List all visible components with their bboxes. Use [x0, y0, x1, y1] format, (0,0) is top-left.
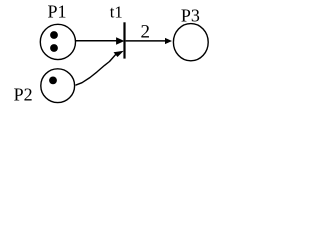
token dot in P1 (lower)	[50, 44, 58, 52]
token dot in P1 (upper)	[50, 31, 58, 39]
svg-text:P2: P2	[14, 84, 33, 104]
svg-text:P3: P3	[181, 6, 200, 26]
wire P1 to t1	[76, 40, 117, 42]
wire t1 to P3	[126, 40, 166, 42]
arrowhead P2 to t1	[114, 51, 124, 57]
place P1 circle	[40, 24, 75, 59]
place P3 circle	[173, 24, 208, 61]
transition t1 bar	[123, 22, 125, 58]
svg-text:2: 2	[141, 21, 151, 42]
svg-text:P1: P1	[47, 2, 66, 22]
wire P2 to t1 (curved arc)	[76, 54, 116, 85]
place P2 circle	[41, 69, 75, 103]
arrowhead t1 to P3	[165, 38, 172, 44]
token dot in P2	[49, 77, 57, 85]
svg-text:t1: t1	[110, 2, 123, 21]
arrowhead P1 to t1	[116, 37, 124, 44]
